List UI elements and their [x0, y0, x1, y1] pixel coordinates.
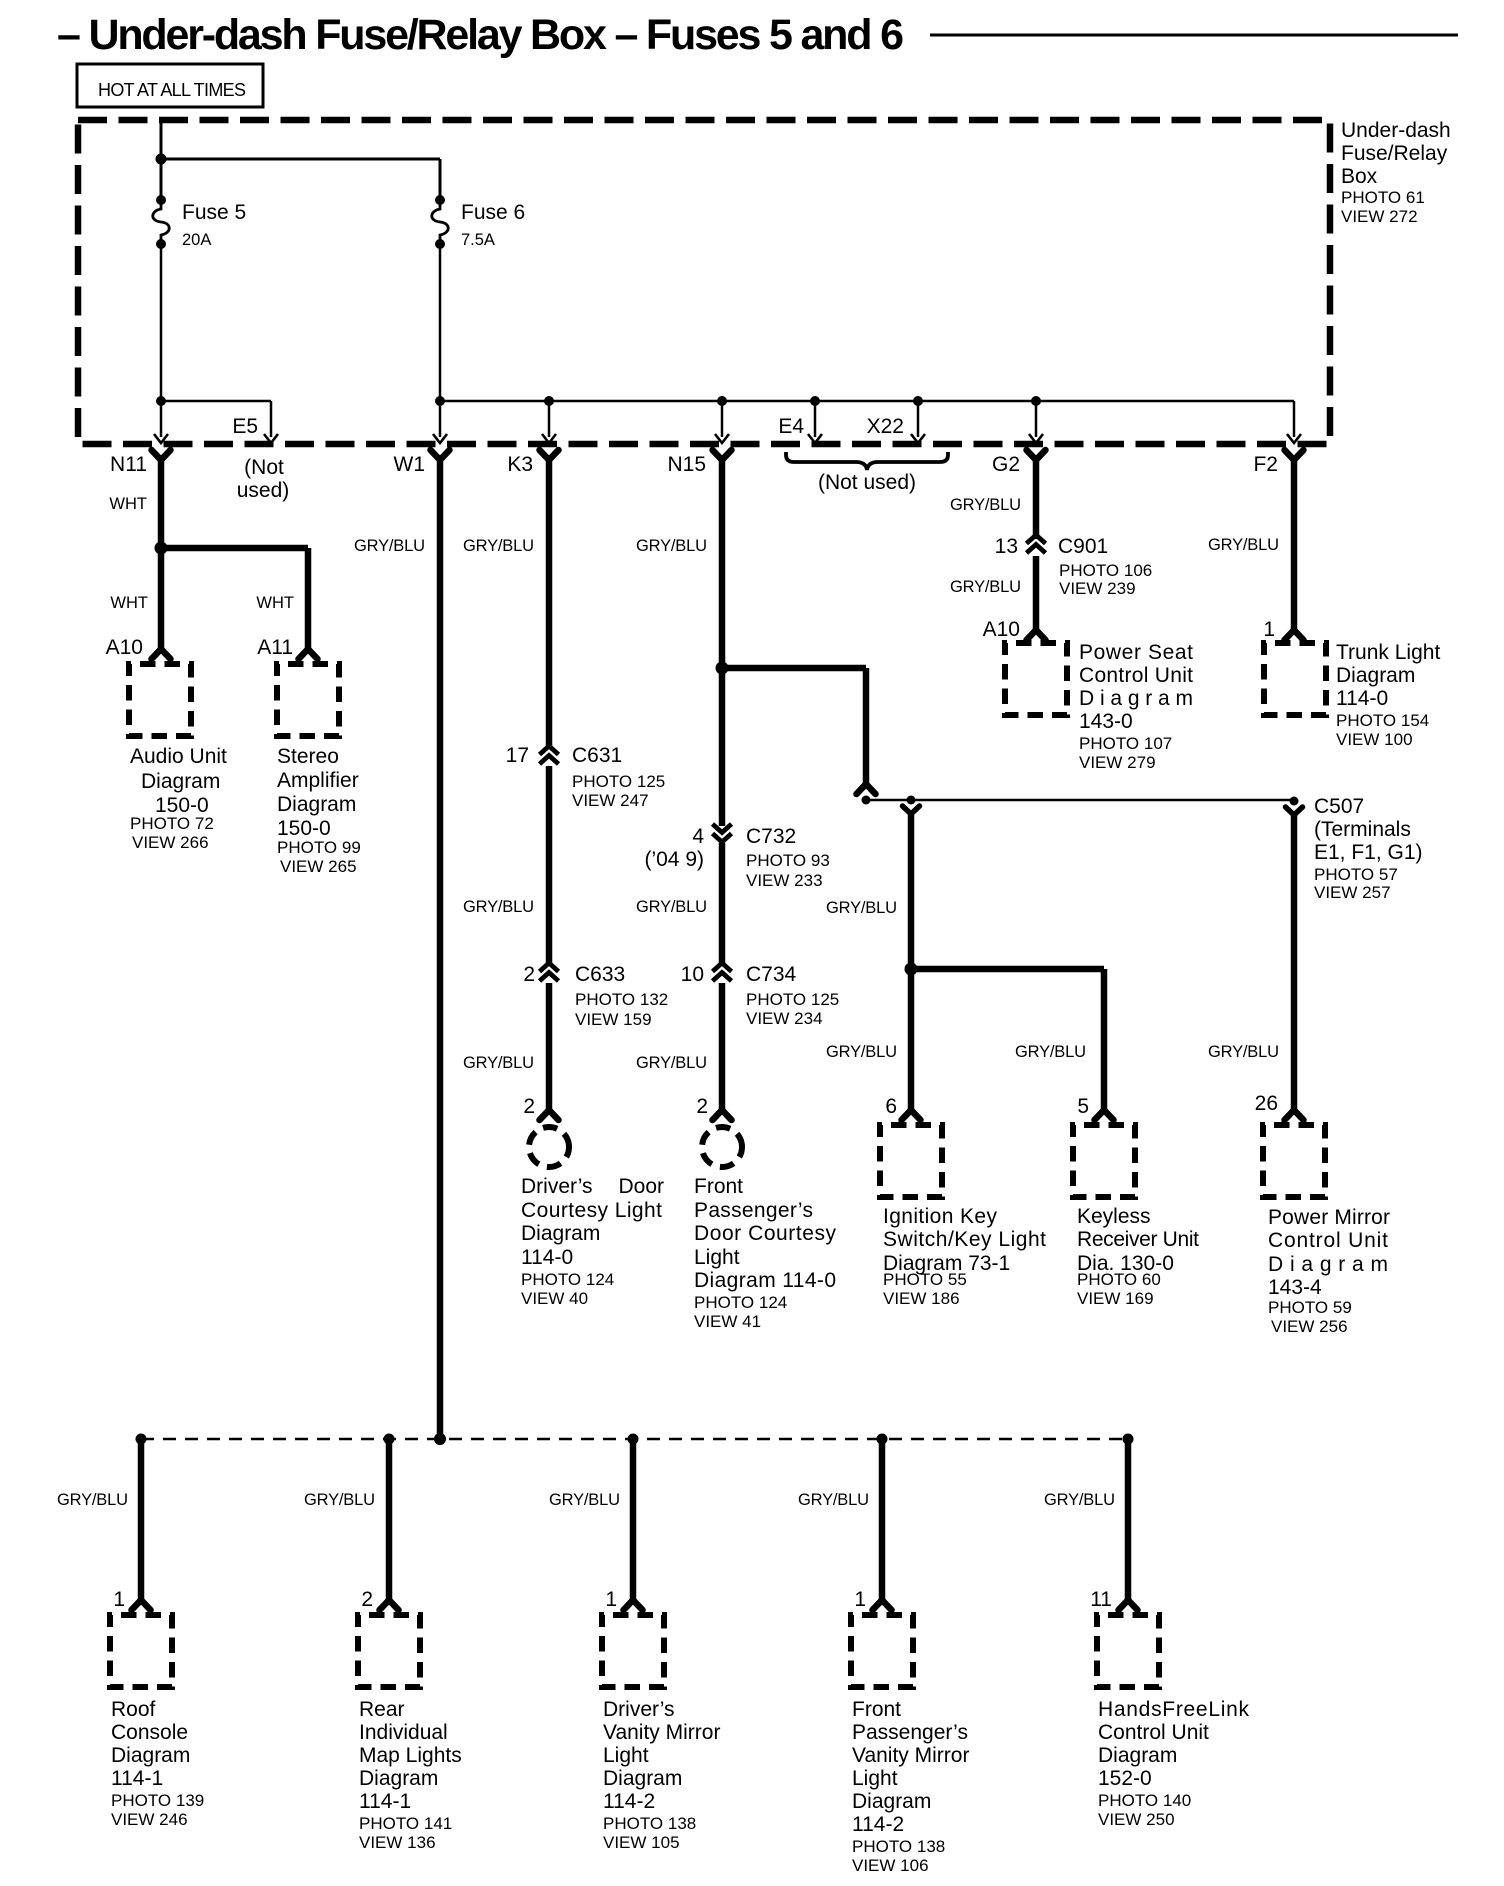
svg-text:Driver’s: Driver’s — [521, 1175, 593, 1198]
svg-text:(Terminals: (Terminals — [1314, 818, 1411, 841]
svg-text:Courtesy Light: Courtesy Light — [521, 1199, 662, 1222]
flare into drivers door courtesy light — [540, 1110, 559, 1120]
svg-text:VIEW 247: VIEW 247 — [572, 791, 649, 810]
junction at F1 — [907, 796, 916, 805]
svg-text:VIEW 100: VIEW 100 — [1336, 730, 1413, 749]
svg-text:Vanity Mirror: Vanity Mirror — [852, 1744, 969, 1767]
svg-text:Driver’s: Driver’s — [603, 1698, 675, 1721]
flare into Roof Console — [132, 1600, 151, 1610]
svg-text:1: 1 — [1263, 618, 1275, 641]
component Stereo Amplifier (dashed box) — [277, 664, 339, 736]
svg-text:5: 5 — [1077, 1095, 1089, 1118]
svg-text:VIEW 234: VIEW 234 — [746, 1009, 823, 1028]
arrow x549 — [542, 434, 556, 443]
svg-text:PHOTO 138: PHOTO 138 — [852, 1837, 945, 1856]
wire: N11 down — [158, 455, 165, 651]
svg-text:GRY/BLU: GRY/BLU — [463, 898, 534, 916]
connector C901 label — [1058, 535, 1152, 598]
wire: G1 down to power mirror — [1291, 813, 1298, 1111]
svg-text:GRY/BLU: GRY/BLU — [304, 1491, 375, 1509]
junction at E1 — [862, 796, 871, 805]
junction fuse5/bus — [156, 396, 166, 406]
Stereo Amplifier label — [277, 745, 361, 876]
svg-text:152-0: 152-0 — [1098, 1767, 1152, 1790]
svg-text:C734: C734 — [746, 963, 797, 986]
flare into front passenger door courtesy light — [713, 1110, 732, 1120]
wire: feed into fuse 5 from top edge — [160, 121, 163, 200]
svg-text:Ignition Key: Ignition Key — [883, 1205, 998, 1228]
svg-text:PHOTO 60: PHOTO 60 — [1077, 1270, 1161, 1289]
junction bus/Drivers Vanity Mirror Light — [628, 1434, 639, 1445]
svg-text:GRY/BLU: GRY/BLU — [463, 1054, 534, 1072]
svg-text:GRY/BLU: GRY/BLU — [1044, 1491, 1115, 1509]
svg-text:Diagram: Diagram — [852, 1790, 931, 1813]
arrow x918 — [911, 434, 925, 443]
wire: drop x549 — [548, 401, 551, 437]
arrow x815 — [808, 434, 822, 443]
arrow x722 — [715, 434, 729, 443]
Drivers Vanity Mirror Light label — [603, 1698, 720, 1852]
wire: bus down to Roof Console — [138, 1439, 145, 1602]
svg-text:PHOTO 124: PHOTO 124 — [521, 1270, 614, 1289]
flare into ignition key switch — [902, 1110, 921, 1120]
wire: bus down to HandsFreeLink Control Unit — [1125, 1439, 1132, 1602]
fuse F5 label — [182, 201, 246, 249]
junction bus x722 — [717, 396, 727, 406]
wire: drop x918 — [917, 401, 920, 437]
svg-text:Front: Front — [694, 1175, 743, 1198]
svg-text:W1: W1 — [394, 453, 426, 476]
svg-text:Door Courtesy: Door Courtesy — [694, 1222, 837, 1245]
wire: E5 drop — [270, 401, 273, 437]
wire: branch down to C507 bus — [863, 668, 870, 786]
flare into keyless receiver — [1095, 1110, 1114, 1120]
svg-text:Control Unit: Control Unit — [1098, 1721, 1209, 1744]
svg-text:VIEW 41: VIEW 41 — [694, 1312, 761, 1331]
svg-text:Diagram: Diagram — [111, 1744, 190, 1767]
junction N11 split — [155, 542, 168, 555]
wire: N15 down to C732 — [719, 668, 726, 826]
svg-text:VIEW 265: VIEW 265 — [280, 857, 357, 876]
svg-text:PHOTO 106: PHOTO 106 — [1059, 561, 1152, 580]
svg-text:K3: K3 — [507, 453, 533, 476]
wire: split to keyless — [911, 966, 1104, 973]
wire: fuse 5 down to bus — [160, 244, 163, 401]
terminal G2 — [1027, 450, 1046, 460]
svg-text:20A: 20A — [182, 231, 211, 249]
svg-text:PHOTO 124: PHOTO 124 — [694, 1293, 787, 1312]
brace E4-X22 — [786, 452, 948, 470]
svg-text:7.5A: 7.5A — [461, 231, 495, 249]
net C507 terminals line — [866, 799, 1294, 802]
Rear Individual Map Lights label — [359, 1698, 462, 1852]
svg-text:N15: N15 — [667, 453, 706, 476]
component Power Seat Control Unit (dashed box) — [1005, 643, 1067, 715]
wire: drop x815 — [814, 401, 817, 437]
svg-text:A10: A10 — [106, 636, 143, 659]
svg-text:Roof: Roof — [111, 1698, 156, 1721]
svg-text:Box: Box — [1341, 165, 1378, 188]
wire: bus to E5 — [161, 400, 271, 403]
fuse F6 — [432, 195, 449, 249]
under-dash fuse/relay box (dashed) — [78, 120, 1330, 444]
junction bus/Front Passenger Vanity Mirror Light — [877, 1434, 888, 1445]
svg-text:Fuse 5: Fuse 5 — [182, 201, 246, 224]
svg-text:Passenger’s: Passenger’s — [852, 1721, 968, 1744]
svg-text:GRY/BLU: GRY/BLU — [1208, 1043, 1279, 1061]
connector C734 — [713, 963, 732, 972]
svg-text:VIEW 239: VIEW 239 — [1059, 579, 1136, 598]
connector C633 label — [575, 963, 668, 1029]
svg-text:13: 13 — [995, 535, 1018, 558]
svg-text:VIEW 105: VIEW 105 — [603, 1833, 680, 1852]
component Rear Individual Map Lights (dashed box) — [358, 1615, 420, 1687]
svg-text:GRY/BLU: GRY/BLU — [57, 1491, 128, 1509]
wire: N15 down — [719, 455, 726, 668]
svg-text:1: 1 — [605, 1588, 617, 1611]
svg-text:(Not: (Not — [244, 456, 284, 479]
svg-text:PHOTO 125: PHOTO 125 — [746, 990, 839, 1009]
svg-text:PHOTO 132: PHOTO 132 — [575, 990, 668, 1009]
wire: bus down to Front Passenger Vanity Mirror Light — [879, 1439, 886, 1602]
svg-text:VIEW 233: VIEW 233 — [746, 871, 823, 890]
svg-text:26: 26 — [1255, 1092, 1278, 1115]
junction bus x1036 — [1031, 396, 1041, 406]
terminal N11 — [152, 450, 171, 460]
svg-text:VIEW 186: VIEW 186 — [883, 1289, 960, 1308]
svg-text:Light: Light — [603, 1744, 649, 1767]
svg-text:Diagram: Diagram — [521, 1222, 600, 1245]
svg-text:GRY/BLU: GRY/BLU — [1015, 1043, 1086, 1061]
wire: C734 to front passenger door courtesy light — [719, 983, 726, 1112]
svg-text:F2: F2 — [1253, 453, 1278, 476]
component Keyless Receiver Unit (dashed box) — [1073, 1125, 1135, 1197]
svg-text:Door: Door — [618, 1175, 664, 1198]
svg-text:Fuse 6: Fuse 6 — [461, 201, 525, 224]
svg-text:VIEW 250: VIEW 250 — [1098, 1810, 1175, 1829]
svg-text:6: 6 — [885, 1095, 897, 1118]
junction bus x549 — [544, 396, 554, 406]
connector C732 — [713, 824, 732, 833]
svg-text:Fuse/Relay: Fuse/Relay — [1341, 142, 1448, 165]
svg-text:Power Mirror: Power Mirror — [1268, 1206, 1390, 1229]
junction at G1 — [1290, 797, 1299, 806]
terminal G1 flare — [1286, 807, 1303, 815]
wire: bus down to Rear Individual Map Lights — [386, 1439, 393, 1602]
wire: drop x722 — [721, 401, 724, 437]
svg-text:Receiver Unit: Receiver Unit — [1077, 1228, 1199, 1251]
component HandsFreeLink Control Unit (dashed box) — [1097, 1615, 1159, 1687]
title rule — [930, 34, 1458, 37]
arrow at W1 — [433, 434, 447, 443]
svg-text:GRY/BLU: GRY/BLU — [798, 1491, 869, 1509]
flare at C507 E1 — [857, 784, 876, 794]
svg-text:GRY/BLU: GRY/BLU — [636, 1054, 707, 1072]
svg-text:G2: G2 — [992, 453, 1020, 476]
svg-text:PHOTO 72: PHOTO 72 — [130, 814, 214, 833]
junction bus/Rear Individual Map Lights — [384, 1434, 395, 1445]
Trunk Light label — [1336, 641, 1440, 749]
svg-text:C901: C901 — [1058, 535, 1108, 558]
wire: G2 down to C901 — [1033, 455, 1040, 539]
junction node feed split — [156, 154, 167, 165]
svg-text:Vanity Mirror: Vanity Mirror — [603, 1721, 720, 1744]
svg-text:Diagram: Diagram — [603, 1767, 682, 1790]
svg-text:VIEW 272: VIEW 272 — [1341, 207, 1418, 226]
svg-text:Map Lights: Map Lights — [359, 1744, 462, 1767]
svg-text:PHOTO 59: PHOTO 59 — [1268, 1298, 1352, 1317]
svg-text:GRY/BLU: GRY/BLU — [826, 1043, 897, 1061]
component Audio Unit (dashed box) — [129, 664, 191, 736]
wire: C901 to power seat control unit — [1033, 556, 1040, 631]
svg-text:114-0: 114-0 — [1336, 687, 1388, 710]
svg-text:A11: A11 — [257, 636, 293, 659]
svg-text:Diagram: Diagram — [1098, 1744, 1177, 1767]
wire: fuse 6 down to bus — [439, 244, 442, 401]
svg-text:VIEW 246: VIEW 246 — [111, 1810, 188, 1829]
svg-text:PHOTO 138: PHOTO 138 — [603, 1814, 696, 1833]
wire: F2 drop — [1293, 401, 1296, 437]
svg-text:114-2: 114-2 — [852, 1813, 904, 1836]
svg-text:11: 11 — [1090, 1588, 1112, 1611]
wire: feed down to fuse 6 — [439, 159, 442, 200]
svg-text:GRY/BLU: GRY/BLU — [1208, 536, 1279, 554]
svg-text:used): used) — [237, 479, 290, 502]
svg-text:PHOTO 141: PHOTO 141 — [359, 1814, 452, 1833]
svg-text:Keyless: Keyless — [1077, 1205, 1151, 1228]
svg-text:2: 2 — [523, 1095, 535, 1118]
svg-text:17: 17 — [506, 744, 529, 767]
wire: N11 drop — [160, 401, 163, 437]
wire: F1 down to split — [908, 812, 915, 969]
svg-text:VIEW 257: VIEW 257 — [1314, 883, 1391, 902]
wire: C631 to C633 — [546, 766, 553, 966]
svg-text:PHOTO 154: PHOTO 154 — [1336, 711, 1429, 730]
svg-text:Diagram: Diagram — [359, 1767, 438, 1790]
wire: drop x1036 — [1035, 401, 1038, 437]
junction ignition/keyless split — [905, 963, 918, 976]
component Ignition Key Switch/Key Light (dashed box) — [880, 1125, 942, 1197]
flare into power seat control unit — [1027, 630, 1046, 640]
junction bus x815 — [810, 396, 820, 406]
arrow x1036 — [1029, 434, 1043, 443]
svg-text:Trunk Light: Trunk Light — [1336, 641, 1440, 664]
svg-text:VIEW 136: VIEW 136 — [359, 1833, 436, 1852]
svg-text:VIEW 279: VIEW 279 — [1079, 753, 1156, 772]
svg-text:114-2: 114-2 — [603, 1790, 655, 1813]
svg-text:WHT: WHT — [110, 594, 148, 612]
svg-text:Under-dash: Under-dash — [1341, 119, 1451, 142]
arrow at F2 — [1287, 434, 1301, 443]
svg-text:PHOTO 140: PHOTO 140 — [1098, 1791, 1191, 1810]
svg-text:WHT: WHT — [256, 594, 294, 612]
svg-text:2: 2 — [361, 1588, 373, 1611]
svg-text:Diagram 114-0: Diagram 114-0 — [694, 1269, 836, 1292]
svg-text:Light: Light — [852, 1767, 898, 1790]
svg-text:1: 1 — [854, 1588, 866, 1611]
junction bus x918 — [913, 396, 923, 406]
svg-text:Power Seat: Power Seat — [1079, 641, 1193, 664]
svg-text:GRY/BLU: GRY/BLU — [354, 537, 425, 555]
wire: N11 branch to A11 — [161, 545, 308, 552]
E5 not used note — [237, 456, 290, 502]
wire: bus fuse6 to F2 — [440, 400, 1294, 403]
svg-text:GRY/BLU: GRY/BLU — [636, 898, 707, 916]
svg-text:150-0: 150-0 — [277, 817, 331, 840]
Keyless Receiver Unit label — [1077, 1205, 1199, 1308]
connector C631 — [540, 746, 559, 755]
wire: bus down to Drivers Vanity Mirror Light — [630, 1439, 637, 1602]
component Trunk Light (dashed box) — [1264, 643, 1326, 715]
wire: feed across to fuse 6 — [161, 158, 440, 161]
svg-text:2: 2 — [523, 963, 535, 986]
svg-text:114-1: 114-1 — [111, 1767, 163, 1790]
fuse F6 label — [461, 201, 525, 249]
svg-text:PHOTO 93: PHOTO 93 — [746, 851, 830, 870]
wire: F2 down to trunk light — [1291, 455, 1298, 631]
svg-text:Audio Unit: Audio Unit — [130, 745, 227, 768]
connector C732 label — [746, 825, 830, 890]
svg-text:GRY/BLU: GRY/BLU — [950, 578, 1021, 596]
Roof Console label — [111, 1698, 204, 1829]
svg-text:PHOTO 55: PHOTO 55 — [883, 1270, 967, 1289]
connector C633 — [540, 963, 559, 972]
svg-text:Control Unit: Control Unit — [1268, 1229, 1388, 1252]
svg-text:2: 2 — [696, 1095, 708, 1118]
net: interior lights bus (dashed) — [141, 1438, 1128, 1441]
junction fuse6/bus — [435, 396, 445, 406]
svg-text:VIEW 106: VIEW 106 — [852, 1856, 929, 1875]
svg-text:114-0: 114-0 — [521, 1246, 573, 1269]
svg-text:10: 10 — [681, 963, 704, 986]
terminal F1 flare — [903, 806, 920, 814]
component Front Passenger Door Courtesy Light (dashed circle) — [702, 1127, 742, 1167]
connector C734 label — [746, 963, 839, 1028]
terminal K3 — [540, 450, 559, 460]
component Front Passenger Vanity Mirror Light (dashed box) — [851, 1615, 913, 1687]
svg-text:HOT AT ALL TIMES: HOT AT ALL TIMES — [98, 80, 246, 100]
svg-text:Diagram: Diagram — [277, 793, 356, 816]
svg-text:Light: Light — [694, 1246, 740, 1269]
component Roof Console (dashed box) — [110, 1615, 172, 1687]
wire: W1 down to interior light bus — [437, 455, 444, 1439]
svg-text:VIEW 266: VIEW 266 — [132, 833, 209, 852]
flare into audio unit — [152, 649, 171, 659]
Ignition Key Switch label — [883, 1205, 1046, 1308]
component Drivers Vanity Mirror Light (dashed box) — [602, 1615, 664, 1687]
svg-text:1: 1 — [113, 1588, 125, 1611]
svg-text:Stereo: Stereo — [277, 745, 339, 768]
svg-text:GRY/BLU: GRY/BLU — [549, 1491, 620, 1509]
svg-text:PHOTO 125: PHOTO 125 — [572, 772, 665, 791]
svg-text:A10: A10 — [983, 618, 1020, 641]
svg-text:(’04 9): (’04 9) — [644, 848, 704, 871]
flare into Drivers Vanity Mirror Light — [624, 1600, 643, 1610]
Front Passenger Door Courtesy Light label — [694, 1175, 837, 1331]
flare into Front Passenger Vanity Mirror Light — [873, 1600, 892, 1610]
component Power Mirror Control Unit (dashed box) — [1263, 1125, 1325, 1197]
junction bus/HandsFreeLink Control Unit — [1123, 1434, 1134, 1445]
connector C631 label — [572, 744, 665, 810]
terminal F2 — [1285, 450, 1304, 460]
flare into HandsFreeLink Control Unit — [1119, 1600, 1138, 1610]
flare into stereo amplifier — [299, 649, 318, 659]
svg-text:PHOTO 139: PHOTO 139 — [111, 1791, 204, 1810]
svg-text:4: 4 — [692, 825, 704, 848]
arrow at E5 — [264, 434, 278, 443]
svg-text:VIEW 256: VIEW 256 — [1271, 1317, 1348, 1336]
svg-text:C732: C732 — [746, 825, 796, 848]
svg-text:D i a g r a m: D i a g r a m — [1268, 1253, 1388, 1276]
svg-text:(Not used): (Not used) — [818, 471, 916, 494]
svg-text:HandsFreeLink: HandsFreeLink — [1098, 1698, 1250, 1721]
svg-text:Diagram: Diagram — [1336, 664, 1415, 687]
flare into Rear Individual Map Lights — [380, 1600, 399, 1610]
connector C901 — [1027, 535, 1046, 544]
svg-text:Rear: Rear — [359, 1698, 405, 1721]
svg-text:143-4: 143-4 — [1268, 1276, 1322, 1299]
Power Mirror Control Unit label — [1268, 1206, 1390, 1336]
svg-text:PHOTO 99: PHOTO 99 — [277, 838, 361, 857]
HandsFreeLink Control Unit label — [1098, 1698, 1250, 1829]
wire: down to ignition key switch — [908, 969, 915, 1111]
svg-text:GRY/BLU: GRY/BLU — [950, 496, 1021, 514]
svg-text:VIEW 40: VIEW 40 — [521, 1289, 588, 1308]
svg-text:Individual: Individual — [359, 1721, 448, 1744]
flare into power mirror control unit — [1285, 1110, 1304, 1120]
under-dash fuse/relay box label — [1341, 119, 1451, 226]
svg-text:E1, F1, G1): E1, F1, G1) — [1314, 841, 1423, 864]
svg-text:WHT: WHT — [109, 495, 147, 513]
Front Passenger Vanity Mirror Light label — [852, 1698, 969, 1875]
component Drivers Door Courtesy Light (dashed circle) — [529, 1127, 569, 1167]
svg-text:N11: N11 — [110, 453, 147, 476]
fuse F5 — [153, 195, 170, 249]
terminal N15 — [713, 450, 732, 460]
Drivers Door Courtesy Light label — [521, 1175, 664, 1308]
wire: N15 branch right — [722, 665, 866, 672]
svg-text:GRY/BLU: GRY/BLU — [463, 537, 534, 555]
svg-text:GRY/BLU: GRY/BLU — [826, 899, 897, 917]
svg-text:VIEW 169: VIEW 169 — [1077, 1289, 1154, 1308]
Audio Unit label — [130, 745, 227, 852]
wire: C633 to drivers door courtesy light — [546, 983, 553, 1112]
connector C507 label — [1314, 795, 1423, 902]
svg-text:C631: C631 — [572, 744, 622, 767]
svg-text:E5: E5 — [232, 415, 258, 438]
wire: down to A11 — [305, 548, 312, 651]
svg-text:C507: C507 — [1314, 795, 1364, 818]
svg-text:114-1: 114-1 — [359, 1790, 411, 1813]
svg-text:VIEW 159: VIEW 159 — [575, 1010, 652, 1029]
svg-text:Front: Front — [852, 1698, 901, 1721]
svg-text:C633: C633 — [575, 963, 625, 986]
flare into trunk light — [1285, 630, 1304, 640]
terminal W1 — [431, 450, 450, 460]
svg-text:– Under-dash Fuse/Relay Box –: – Under-dash Fuse/Relay Box – Fuses 5 an… — [57, 11, 904, 59]
svg-text:D i a g r a m: D i a g r a m — [1079, 687, 1193, 710]
wire: C732 to C734 — [719, 843, 726, 966]
arrow at N11 — [154, 434, 168, 443]
svg-text:Console: Console — [111, 1721, 188, 1744]
label HOT AT ALL TIMES — [77, 64, 263, 107]
svg-text:X22: X22 — [867, 415, 904, 438]
svg-text:PHOTO 57: PHOTO 57 — [1314, 865, 1398, 884]
svg-text:PHOTO 61: PHOTO 61 — [1341, 188, 1425, 207]
svg-text:E4: E4 — [778, 415, 804, 438]
wire: K3 down to C631 — [546, 455, 553, 749]
svg-text:143-0: 143-0 — [1079, 710, 1133, 733]
